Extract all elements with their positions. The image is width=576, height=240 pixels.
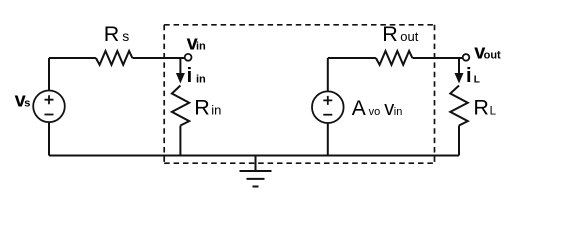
svg-text:out: out (400, 29, 418, 44)
svg-text:A: A (352, 97, 366, 120)
svg-text:R: R (104, 22, 120, 46)
wire: dep source bottom stub (327, 123, 329, 156)
svg-text:L: L (490, 106, 497, 118)
dashed amplifier box (164, 25, 434, 163)
ground (240, 156, 272, 187)
label Rin (194, 96, 221, 120)
wire: RL to bottom rail (458, 126, 460, 156)
svg-text:R: R (194, 96, 210, 120)
label Rout (382, 22, 418, 46)
svg-text:in: in (394, 106, 403, 118)
current arrow i_in (176, 58, 185, 84)
resistor Rs (96, 51, 132, 65)
label i_in (187, 65, 206, 87)
wire: Rout to vout node (412, 57, 462, 59)
resistor Rin (172, 86, 189, 126)
label vout (474, 41, 501, 63)
svg-text:in: in (211, 103, 221, 118)
svg-text:out: out (484, 49, 501, 61)
svg-text:s: s (24, 98, 30, 110)
node vout terminal circle (463, 54, 470, 61)
svg-text:R: R (382, 22, 398, 46)
svg-text:v: v (384, 98, 394, 120)
wire: left rail lower (48, 122, 50, 156)
svg-text:R: R (473, 96, 489, 120)
svg-text:s: s (122, 28, 129, 44)
svg-text:L: L (474, 75, 480, 86)
wire: dep source top stub (327, 58, 329, 92)
current arrow i_L (455, 58, 464, 84)
wire: left rail upper (48, 58, 50, 91)
dependent source A_vo v_in (312, 91, 344, 123)
svg-text:in: in (196, 41, 206, 53)
label vin (187, 33, 206, 55)
wire: Rin to bottom rail (179, 126, 181, 156)
resistor RL (450, 86, 468, 126)
resistor Rout (376, 51, 413, 65)
label i_L (466, 65, 480, 87)
wire: output top left segment (328, 57, 376, 59)
voltage source Vs (33, 91, 65, 123)
label RL (473, 96, 496, 120)
label A_vo v_in (352, 97, 403, 120)
label Rs (104, 22, 130, 46)
wire: Rs to vin node (132, 57, 184, 59)
wire: bottom rail (49, 155, 459, 157)
label vs (15, 90, 31, 112)
wire: input top left segment (49, 57, 96, 59)
svg-text:i: i (187, 65, 193, 87)
node vin terminal circle (185, 54, 192, 61)
svg-text:vo: vo (369, 106, 381, 118)
svg-text:i: i (466, 65, 472, 87)
svg-text:in: in (196, 74, 206, 86)
